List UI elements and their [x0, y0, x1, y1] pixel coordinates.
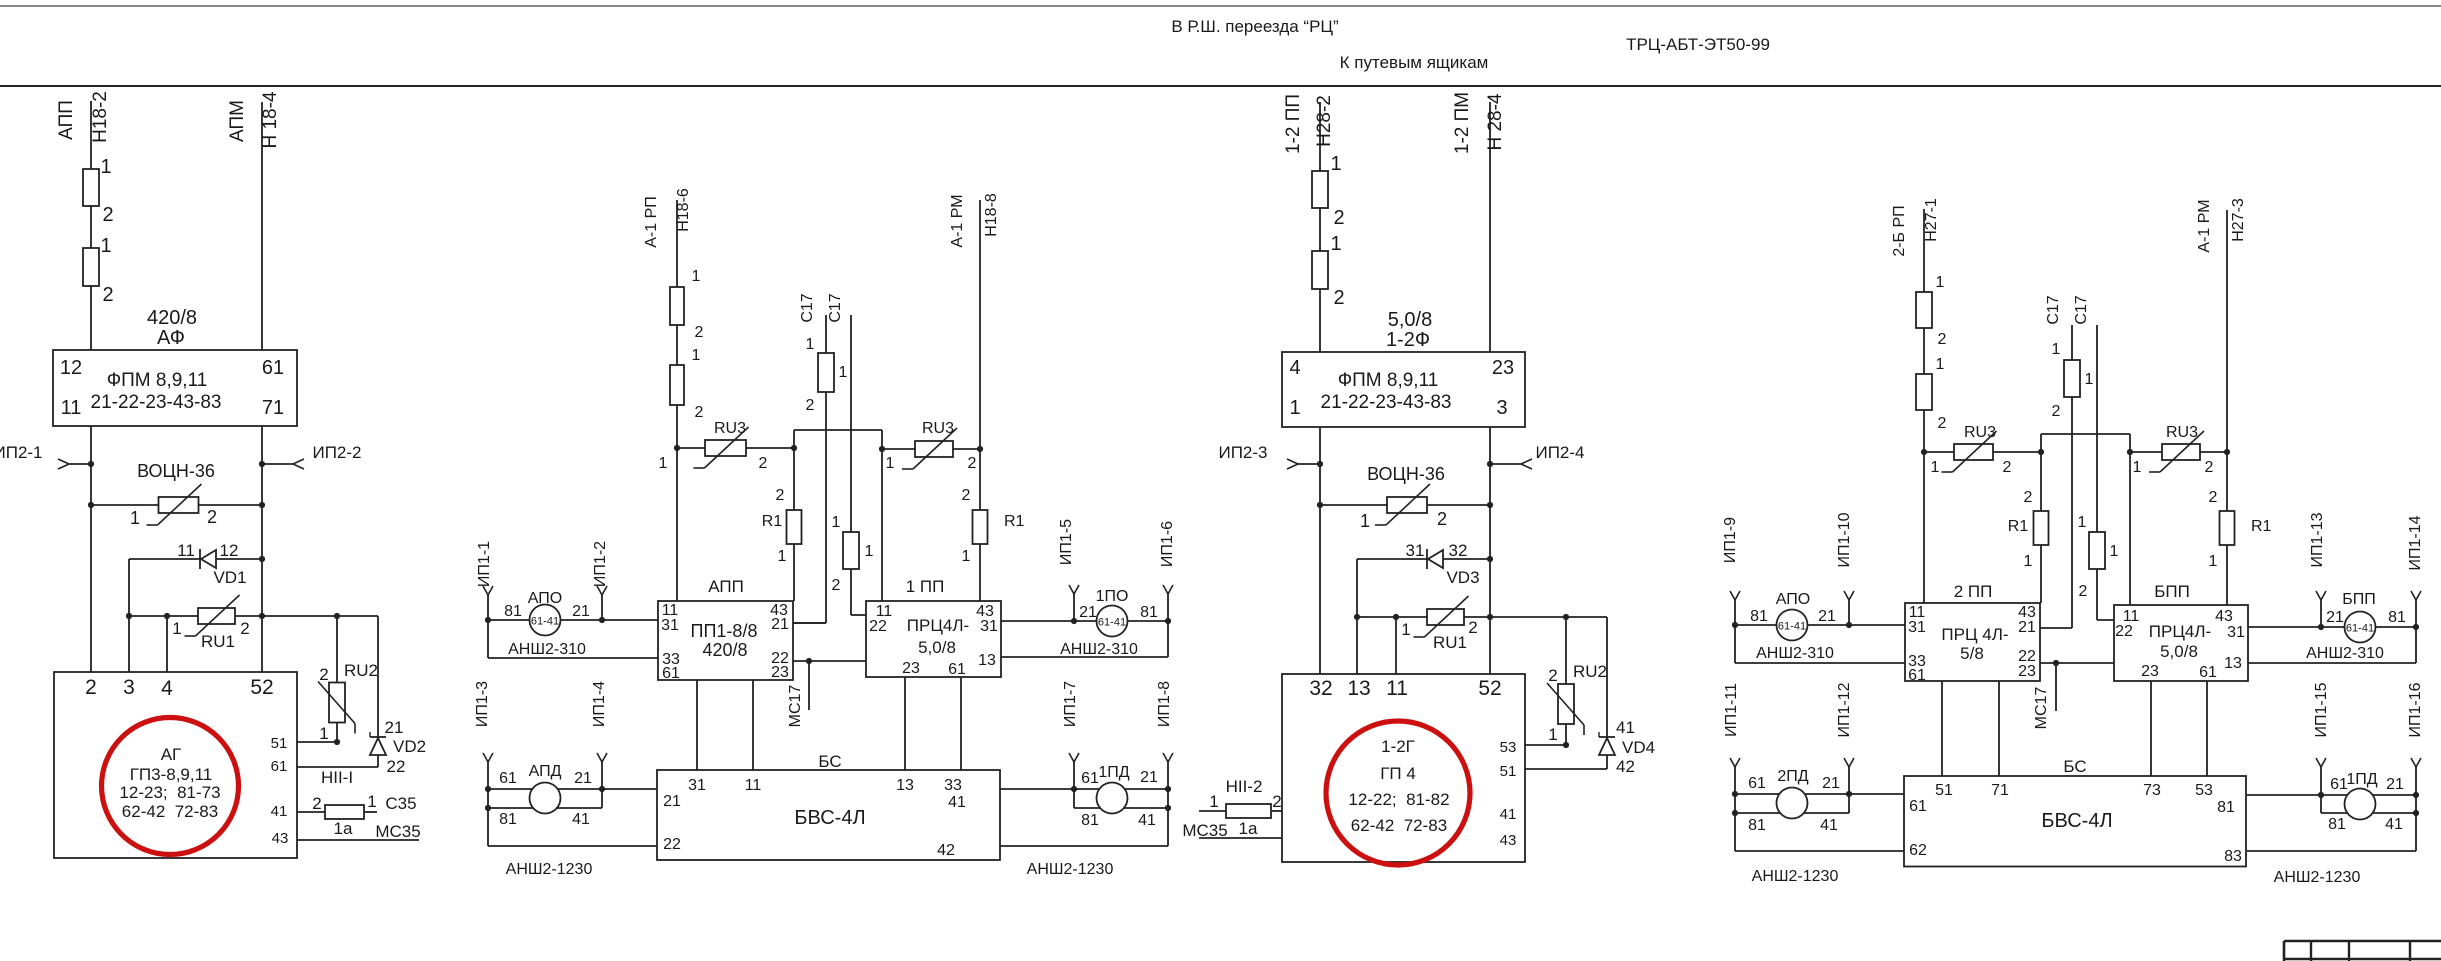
wire ПП1 pin 21 to С17	[793, 622, 826, 624]
svg-text:С17: С17	[827, 293, 844, 322]
svg-text:1-2 ПМ: 1-2 ПМ	[1452, 92, 1473, 154]
svg-text:ИП1-6: ИП1-6	[1159, 521, 1176, 567]
net label В Р.Ш. переезда РЦ	[1171, 17, 1339, 36]
wire 1-2ПМ below ФПМ to 1-2Г pin 52	[1489, 427, 1491, 674]
svg-text:13: 13	[896, 777, 914, 794]
svg-text:41: 41	[2385, 816, 2403, 833]
svg-text:АНШ2-310: АНШ2-310	[1060, 641, 1138, 658]
svg-text:2: 2	[695, 404, 704, 421]
svg-text:Н28-2: Н28-2	[1314, 95, 1335, 147]
varistor RU3 left (group4)	[1921, 424, 2041, 476]
relay АПО (АНШ2-310)	[476, 541, 658, 658]
svg-text:АНШ2-310: АНШ2-310	[2306, 645, 2384, 662]
svg-text:41: 41	[948, 794, 966, 811]
wire А-1 РМ / Н27-3	[2196, 198, 2247, 605]
block U-2ПП ПРЦ 4Л-5/8	[1905, 582, 2040, 684]
stub МС17 (group4)	[2033, 663, 2056, 729]
svg-text:ИП1-12: ИП1-12	[1836, 682, 1853, 737]
svg-text:22: 22	[869, 618, 887, 635]
svg-text:1: 1	[2078, 514, 2087, 531]
svg-text:ИП1-16: ИП1-16	[2407, 682, 2424, 737]
resistor R1 left (group2)	[762, 487, 802, 565]
svg-text:42: 42	[937, 842, 955, 859]
svg-text:23: 23	[2018, 663, 2036, 680]
svg-text:ИП1-2: ИП1-2	[592, 541, 609, 587]
relay 2ПД (АНШ2-1230)	[1723, 682, 1904, 885]
svg-text:ИП1-10: ИП1-10	[1836, 512, 1853, 567]
svg-text:2: 2	[319, 665, 328, 684]
svg-text:31: 31	[1908, 619, 1926, 636]
svg-text:1: 1	[1289, 397, 1300, 419]
svg-text:ИП1-9: ИП1-9	[1722, 517, 1739, 563]
svg-text:21-22-23-43-83: 21-22-23-43-83	[1321, 392, 1452, 413]
fuse F2-1 (А-1 РП)	[670, 268, 704, 341]
svg-text:1: 1	[172, 619, 181, 638]
svg-text:НII-I: НII-I	[321, 768, 353, 787]
svg-text:R1: R1	[2008, 518, 2029, 535]
svg-text:ИП1-11: ИП1-11	[1723, 683, 1740, 737]
svg-text:БВС-4Л: БВС-4Л	[794, 807, 865, 829]
wire 1-2ПП below ФПМ to 1-2Г pin 32	[1319, 427, 1321, 674]
svg-text:RU1: RU1	[201, 632, 235, 651]
svg-text:2: 2	[102, 284, 113, 306]
wire 2ПП pin 22 to БПП / node МС17	[2040, 660, 2114, 666]
svg-text:2: 2	[968, 455, 977, 472]
wire С17 right (group2)	[827, 293, 866, 615]
svg-text:2ПД: 2ПД	[1777, 768, 1808, 785]
svg-text:2: 2	[776, 487, 785, 504]
svg-text:БПП: БПП	[2342, 591, 2376, 608]
wire АГ pin 61 / НII-I	[297, 767, 378, 787]
svg-text:ПРЦ4Л-: ПРЦ4Л-	[2149, 622, 2211, 641]
diode VD3	[1357, 541, 1493, 587]
wire corner x794 down to ПП1 pin 43	[791, 430, 797, 601]
svg-text:21: 21	[1079, 604, 1097, 621]
svg-text:43: 43	[2215, 608, 2233, 625]
svg-text:81: 81	[504, 603, 522, 620]
varistor RU2	[318, 616, 378, 745]
svg-text:1: 1	[806, 336, 815, 353]
svg-text:1а: 1а	[1239, 819, 1258, 838]
svg-text:41: 41	[1138, 812, 1156, 829]
varistor RU2 (group3)	[1547, 617, 1607, 748]
svg-text:21: 21	[572, 603, 590, 620]
svg-text:81: 81	[1750, 608, 1768, 625]
wire АГ pin 4 stub	[166, 616, 168, 672]
svg-text:73: 73	[2143, 782, 2161, 799]
svg-text:81: 81	[1140, 604, 1158, 621]
svg-text:11: 11	[1386, 677, 1408, 700]
svg-text:2: 2	[2003, 459, 2012, 476]
svg-text:21: 21	[1822, 775, 1840, 792]
net label К путевым ящикам	[1340, 53, 1489, 72]
svg-text:БС: БС	[2063, 757, 2086, 776]
wire x882 down to ПРЦ4Л pin 11	[879, 430, 885, 601]
svg-text:11: 11	[745, 777, 762, 794]
svg-text:43: 43	[1500, 832, 1517, 849]
svg-text:1: 1	[886, 455, 895, 472]
svg-text:АНШ2-1230: АНШ2-1230	[506, 861, 593, 878]
svg-text:51: 51	[271, 735, 288, 752]
svg-text:5,0/8: 5,0/8	[918, 638, 956, 657]
svg-text:31: 31	[2227, 624, 2245, 641]
wire АПМ / Н 18-4	[227, 91, 281, 350]
block U-1-2Г generator	[1282, 674, 1525, 862]
svg-text:АНШ2-1230: АНШ2-1230	[1027, 861, 1114, 878]
svg-text:1-2 ПП: 1-2 ПП	[1283, 94, 1304, 154]
svg-text:VD2: VD2	[393, 737, 426, 756]
diode VD1	[129, 541, 265, 587]
relay БПП (АНШ2-310)	[2248, 512, 2424, 663]
svg-text:АНШ2-310: АНШ2-310	[508, 641, 586, 658]
block U-БС БВС-4Л (group4)	[1904, 681, 2246, 867]
svg-text:1: 1	[832, 514, 841, 531]
svg-text:61: 61	[1908, 667, 1926, 684]
svg-text:2: 2	[2209, 489, 2218, 506]
svg-text:2: 2	[962, 487, 971, 504]
svg-text:23: 23	[771, 664, 789, 681]
wire VD3 corner to pin 13	[1356, 559, 1358, 674]
svg-text:13: 13	[1347, 677, 1370, 700]
wire А-1 РМ / Н18-8	[949, 193, 1000, 601]
svg-text:81: 81	[1081, 812, 1099, 829]
wire С17 left (group2)	[793, 293, 826, 623]
svg-text:21: 21	[385, 718, 404, 737]
svg-text:1: 1	[319, 724, 328, 743]
svg-text:2: 2	[1333, 207, 1344, 229]
varistor ВОЦН-36	[88, 461, 265, 528]
svg-text:42: 42	[1616, 757, 1635, 776]
svg-text:420/8: 420/8	[147, 307, 197, 329]
svg-text:61: 61	[662, 665, 680, 682]
svg-text:5,0/8: 5,0/8	[2160, 642, 2198, 661]
svg-text:62: 62	[1909, 842, 1927, 859]
svg-text:62-42 72-83: 62-42 72-83	[1351, 816, 1447, 835]
fuse НII-2 (МС35)	[1199, 777, 1282, 838]
svg-text:1: 1	[2133, 459, 2142, 476]
svg-text:2: 2	[759, 455, 768, 472]
svg-text:5/8: 5/8	[1960, 644, 1984, 663]
svg-text:1: 1	[1360, 511, 1370, 531]
svg-text:41: 41	[271, 803, 288, 820]
svg-text:АПО: АПО	[1776, 591, 1810, 608]
svg-text:1: 1	[865, 543, 874, 560]
svg-text:RU3: RU3	[922, 420, 954, 437]
wire 1-2 ПП / Н28-2	[1283, 94, 1335, 352]
block U-АПП ПП1-8/8	[658, 577, 793, 682]
svg-text:2: 2	[1548, 666, 1557, 685]
svg-text:81: 81	[2328, 816, 2346, 833]
svg-text:1ПД: 1ПД	[1098, 764, 1129, 781]
svg-text:81: 81	[1748, 817, 1766, 834]
svg-text:ВОЦН-36: ВОЦН-36	[1367, 464, 1445, 484]
svg-text:Н18-6: Н18-6	[675, 188, 692, 232]
varistor RU1 (group3)	[1354, 596, 1607, 652]
svg-text:4: 4	[161, 677, 173, 700]
svg-text:ИП1-1: ИП1-1	[476, 541, 493, 587]
svg-text:2: 2	[832, 577, 841, 594]
svg-text:61: 61	[262, 357, 284, 379]
svg-text:81: 81	[2388, 609, 2406, 626]
svg-text:1-2Ф: 1-2Ф	[1386, 329, 1430, 351]
svg-text:К путевым ящикам: К путевым ящикам	[1340, 53, 1489, 72]
svg-text:1 ПП: 1 ПП	[906, 577, 945, 596]
marker red circle 1-2Г	[1326, 721, 1470, 865]
svg-text:31: 31	[688, 777, 706, 794]
svg-text:21: 21	[574, 770, 592, 787]
wire x2130 down to БПП pin 11	[2127, 434, 2133, 605]
svg-text:ИП1-3: ИП1-3	[474, 681, 491, 727]
wire horizontal y434 (group4)	[2041, 433, 2130, 435]
svg-text:Н18-2: Н18-2	[90, 91, 111, 143]
varistor RU3 right (group2)	[882, 420, 980, 472]
svg-text:1-2Г: 1-2Г	[1381, 737, 1415, 756]
fuse F4-2	[1916, 356, 1947, 432]
svg-text:23: 23	[2141, 663, 2159, 680]
svg-text:2: 2	[806, 397, 815, 414]
svg-text:АФ: АФ	[157, 327, 185, 349]
wire МС35 (АГ pin 43)	[297, 822, 421, 841]
block U-АГ generator	[54, 672, 297, 858]
varistor RU3 right (group4)	[2130, 424, 2227, 476]
svg-text:А-1 РМ: А-1 РМ	[949, 194, 966, 247]
svg-text:1: 1	[2085, 371, 2094, 388]
node ИП2-1	[0, 443, 94, 469]
svg-text:2: 2	[2024, 489, 2033, 506]
svg-text:61-41: 61-41	[1098, 617, 1126, 629]
svg-text:АНШ2-1230: АНШ2-1230	[2274, 869, 2361, 886]
relay 1ПО (АНШ2-310)	[1001, 519, 1176, 658]
svg-text:41: 41	[1820, 817, 1838, 834]
svg-text:33: 33	[944, 777, 962, 794]
block U-БПП ПРЦ4Л-5,0/8	[2114, 582, 2248, 681]
svg-text:2: 2	[1333, 287, 1344, 309]
svg-text:61-41: 61-41	[531, 616, 559, 628]
svg-text:А-1 РП: А-1 РП	[643, 196, 660, 248]
wire horizontal y430 (group2)	[794, 429, 882, 431]
svg-text:Н27-1: Н27-1	[1923, 198, 1940, 242]
svg-text:С17: С17	[799, 293, 816, 322]
wire АГ pin 3 stub	[128, 616, 130, 672]
wire ПП1 pin 22 to ПРЦ4Л / node МС17	[793, 658, 866, 664]
svg-text:52: 52	[1478, 677, 1501, 700]
svg-text:62-42 72-83: 62-42 72-83	[122, 802, 218, 821]
svg-text:БС: БС	[818, 752, 841, 771]
svg-text:61: 61	[2330, 776, 2348, 793]
svg-text:61-41: 61-41	[2346, 623, 2374, 635]
block U-АФ ФПМ filter	[53, 350, 297, 426]
block U-1-2Ф ФПМ filter	[1282, 352, 1525, 427]
svg-text:53: 53	[1500, 739, 1517, 756]
varistor RU1	[126, 595, 378, 651]
label 420/8 АФ	[147, 307, 197, 349]
block U-1ПП ПРЦ4Л-5,0/8	[866, 577, 1001, 678]
svg-text:1а: 1а	[334, 819, 353, 838]
relay АПД (АНШ2-1230)	[474, 681, 657, 878]
capacitor С17 right resistor (group4)	[2078, 514, 2119, 600]
svg-text:1: 1	[692, 347, 701, 364]
svg-text:НII-2: НII-2	[1226, 777, 1263, 796]
svg-text:ИП1-14: ИП1-14	[2407, 515, 2424, 570]
svg-text:ГП 4: ГП 4	[1380, 764, 1416, 783]
svg-text:АПП: АПП	[708, 577, 744, 596]
svg-text:ИП1-13: ИП1-13	[2309, 512, 2326, 567]
svg-text:ПРЦ 4Л-: ПРЦ 4Л-	[1941, 625, 2008, 644]
svg-text:22: 22	[663, 836, 681, 853]
svg-text:12-22; 81-82: 12-22; 81-82	[1348, 790, 1449, 809]
svg-text:2: 2	[2052, 403, 2061, 420]
svg-text:ИП1-7: ИП1-7	[1062, 681, 1079, 727]
svg-text:32: 32	[1309, 677, 1332, 700]
diode VD2 zener	[370, 616, 426, 776]
resistor R1 left (group4)	[2008, 489, 2049, 570]
svg-text:2: 2	[2079, 583, 2088, 600]
svg-text:Н27-3: Н27-3	[2230, 198, 2247, 242]
capacitor С17 right resistor (group2)	[832, 514, 874, 594]
svg-text:RU2: RU2	[344, 661, 378, 680]
svg-text:ФПМ 8,9,11: ФПМ 8,9,11	[107, 370, 208, 391]
svg-text:2: 2	[1468, 618, 1477, 637]
svg-text:МС17: МС17	[787, 685, 804, 728]
svg-text:71: 71	[1991, 782, 2009, 799]
svg-text:RU1: RU1	[1433, 633, 1467, 652]
svg-text:VD1: VD1	[213, 568, 246, 587]
svg-text:1ПД: 1ПД	[2346, 771, 2377, 788]
fuse F1-2 (АПП)	[83, 235, 114, 306]
wire corner x2041 down to 2ПП pin 43	[2038, 434, 2044, 603]
svg-text:13: 13	[2224, 655, 2242, 672]
svg-text:ИП1-4: ИП1-4	[591, 681, 608, 727]
svg-text:3: 3	[1496, 397, 1507, 419]
svg-text:ФПМ 8,9,11: ФПМ 8,9,11	[1338, 370, 1439, 391]
svg-text:ПРЦ4Л-: ПРЦ4Л-	[907, 616, 969, 635]
svg-text:1: 1	[1936, 274, 1945, 291]
fuse F4-1	[1916, 274, 1947, 348]
block U-БС БВС-4Л (group2)	[657, 677, 1000, 860]
svg-text:12: 12	[60, 357, 82, 379]
svg-text:22: 22	[2115, 623, 2133, 640]
svg-text:ПП1-8/8: ПП1-8/8	[691, 621, 758, 641]
svg-text:12: 12	[220, 541, 239, 560]
svg-text:Н 28-4: Н 28-4	[1485, 93, 1506, 150]
svg-text:1: 1	[1330, 233, 1341, 255]
svg-text:21: 21	[2018, 619, 2036, 636]
svg-text:2: 2	[2205, 459, 2214, 476]
svg-text:11: 11	[61, 397, 82, 419]
svg-text:ВОЦН-36: ВОЦН-36	[137, 461, 215, 481]
relay АПО (group4, АНШ2-310)	[1722, 512, 1905, 663]
svg-text:1: 1	[1936, 356, 1945, 373]
wire VD1 to RU1 junction	[128, 559, 130, 616]
svg-text:5,0/8: 5,0/8	[1388, 309, 1432, 331]
svg-text:1: 1	[367, 792, 376, 811]
relay 1ПД (group4, АНШ2-1230)	[2247, 682, 2424, 886]
svg-text:В Р.Ш. переезда “РЦ”: В Р.Ш. переезда “РЦ”	[1171, 17, 1339, 36]
svg-text:21: 21	[1140, 769, 1158, 786]
svg-text:61-41: 61-41	[1778, 621, 1806, 633]
svg-text:2: 2	[1938, 331, 1947, 348]
svg-text:23: 23	[902, 660, 920, 677]
fuse С35	[297, 792, 417, 838]
diode VD4 zener	[1599, 617, 1655, 776]
svg-text:VD3: VD3	[1446, 568, 1479, 587]
svg-text:2: 2	[207, 507, 217, 527]
svg-text:22: 22	[387, 757, 406, 776]
svg-text:1: 1	[1209, 792, 1218, 811]
svg-text:ГП3-8,9,11: ГП3-8,9,11	[130, 765, 213, 784]
svg-text:ИП1-8: ИП1-8	[1156, 681, 1173, 727]
svg-text:52: 52	[250, 676, 273, 699]
svg-text:АПП: АПП	[56, 100, 77, 140]
svg-text:61: 61	[1748, 775, 1766, 792]
svg-text:3: 3	[123, 676, 135, 699]
varistor RU3 left (group2)	[659, 420, 794, 472]
svg-text:БПП: БПП	[2154, 582, 2190, 601]
svg-text:41: 41	[1616, 718, 1635, 737]
svg-text:С17: С17	[2073, 295, 2090, 324]
svg-text:1: 1	[1401, 620, 1410, 639]
wire АПМ below ФПМ to АГ pin 52	[261, 426, 263, 672]
svg-text:1: 1	[1931, 459, 1940, 476]
svg-text:1: 1	[2052, 341, 2061, 358]
svg-text:41: 41	[1500, 806, 1517, 823]
node ИП2-3	[1218, 443, 1323, 469]
svg-text:61: 61	[2199, 664, 2217, 681]
svg-text:1: 1	[839, 364, 848, 381]
fuse F2-2 (А-1 РП)	[670, 347, 704, 421]
svg-text:RU3: RU3	[1964, 424, 1996, 441]
svg-text:21: 21	[663, 793, 681, 810]
fuse F1-1 (АПП)	[83, 156, 114, 226]
node ИП2-4	[1487, 443, 1585, 469]
fuse F3-1	[1312, 153, 1345, 229]
svg-text:БВС-4Л: БВС-4Л	[2041, 810, 2112, 832]
svg-text:4: 4	[1289, 357, 1300, 379]
stub МС17 (group2)	[787, 661, 809, 727]
svg-text:71: 71	[262, 397, 284, 419]
svg-text:ИП2-2: ИП2-2	[312, 443, 361, 462]
resistor R1 right (group4)	[2209, 489, 2272, 570]
svg-text:1: 1	[1548, 725, 1557, 744]
svg-text:1: 1	[1330, 153, 1341, 175]
wire АПП below ФПМ to АГ pin 2	[90, 426, 92, 672]
varistor ВОЦН-36 (group3)	[1317, 464, 1493, 531]
svg-text:ИП1-5: ИП1-5	[1058, 519, 1075, 565]
svg-text:1: 1	[2024, 553, 2033, 570]
svg-text:АПД: АПД	[529, 763, 562, 780]
svg-text:1: 1	[100, 235, 111, 257]
svg-text:2: 2	[1272, 792, 1281, 811]
wire С17 right (group4)	[2073, 295, 2114, 620]
svg-text:ИП2-1: ИП2-1	[0, 443, 43, 462]
svg-text:83: 83	[2224, 848, 2242, 865]
svg-text:2: 2	[1938, 415, 1947, 432]
svg-text:1: 1	[2110, 543, 2119, 560]
svg-text:61: 61	[271, 758, 288, 775]
svg-text:2: 2	[695, 324, 704, 341]
node ИП2-2	[259, 443, 362, 469]
svg-text:1: 1	[100, 156, 111, 178]
svg-text:С17: С17	[2045, 295, 2062, 324]
svg-text:Н 18-4: Н 18-4	[260, 91, 281, 148]
svg-text:ИП2-4: ИП2-4	[1535, 443, 1584, 462]
svg-text:41: 41	[572, 811, 590, 828]
svg-text:ИП2-3: ИП2-3	[1218, 443, 1267, 462]
wire 2-Б РП / Н27-1	[1891, 198, 1940, 603]
svg-text:2-Б РП: 2-Б РП	[1891, 205, 1908, 256]
svg-text:2: 2	[102, 204, 113, 226]
svg-text:АНШ2-1230: АНШ2-1230	[1752, 868, 1839, 885]
